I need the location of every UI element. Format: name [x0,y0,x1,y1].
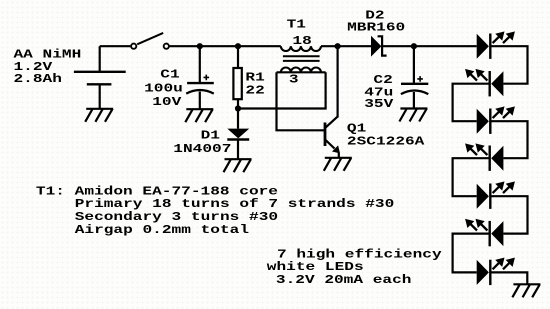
switch S1 [131,33,169,49]
LED1 (white LED, points right) [477,33,514,59]
wire primary to D2 [321,45,371,47]
svg-text:1N4007: 1N4007 [173,143,231,157]
ground (D1) [224,159,252,172]
node: C2 / LED chain junction [411,43,417,49]
svg-text:2.8Ah: 2.8Ah [14,73,62,87]
wire junction to C2 [413,46,415,84]
T1 labels [287,18,312,86]
note LED specification [267,248,442,287]
svg-text:7 high efficiency: 7 high efficiency [277,248,442,262]
LED7 (white LED, points right) [477,259,514,285]
R1 label [245,71,264,98]
svg-text:35V: 35V [364,98,394,112]
wire secondary left end to Q1 base [277,72,325,130]
capacitor C1 (polarized) [186,75,214,94]
wire D1 to ground [237,140,239,160]
node: Q1 collector / D2 anode junction [335,43,341,49]
C1 label [144,68,183,109]
capacitor C2 (polarized) [401,76,428,94]
note T1 winding specification [36,185,394,237]
node: R1/D1/secondary junction [235,105,241,111]
Q1 label [347,122,425,149]
resistor R1 22 [233,68,241,99]
wire junction to secondary right end [238,72,326,108]
wire junction to R1 [237,46,239,68]
svg-text:C1: C1 [160,68,179,82]
LED5 (white LED, points right) [477,183,514,209]
ground (C2) [399,109,427,122]
ground (battery) [85,109,113,122]
wire D1 anode [237,109,239,129]
LED6 (white LED, points left) [467,220,504,246]
svg-text:2SC1226A: 2SC1226A [347,135,425,149]
svg-text:22: 22 [245,84,264,98]
wire junction to C1 [199,46,201,83]
wire LED3 cathode to right rail [490,121,527,158]
svg-text:T1: T1 [287,18,306,32]
wire C2 to ground [413,92,415,109]
wire LED7 cathode to ground [490,272,527,284]
transformer T1 primary winding (18 turns) [281,46,321,51]
C2 label [364,74,394,112]
svg-text:Primary 18 turns of 7 strands: Primary 18 turns of 7 strands #30 [75,198,395,212]
wire C2 junction to LED1 [414,45,477,47]
wire switch to T1 primary [170,45,281,47]
svg-text:MBR160: MBR160 [347,21,405,35]
svg-text:18: 18 [292,35,311,49]
svg-text:3.2V 20mA each: 3.2V 20mA each [276,274,412,288]
svg-text:R1: R1 [245,71,264,85]
T1 secondary winding (3 turns) [277,67,326,72]
svg-text:3: 3 [289,73,299,87]
svg-text:T1: Amidon EA-77-188 core: T1: Amidon EA-77-188 core [36,185,278,199]
LED4 (white LED, points left) [467,145,504,171]
svg-text:white LEDs: white LEDs [267,261,364,275]
wire D2 to C2 junction [382,45,414,47]
wire battery to switch [100,45,131,47]
diode D2 MBR160 (Schottky) [371,36,387,57]
wire LED1 cathode to right rail [490,46,527,83]
wire LED2 cathode to left rail [453,84,490,122]
D2 label [347,9,405,35]
LED2 (white LED, points left) [467,70,504,96]
battery B1 AA NiMH [74,46,126,109]
T1 core [283,55,320,57]
transistor Q1 2SC1226A (NPN) [325,46,340,158]
node: R1 top junction [235,43,241,49]
ground (LED chain) [512,284,540,297]
svg-text:Q1: Q1 [347,122,366,136]
wire C1 to ground [199,92,201,110]
svg-text:Secondary 3 turns #30: Secondary 3 turns #30 [75,211,278,225]
svg-text:100u: 100u [144,82,183,96]
D1 label [173,129,231,156]
svg-text:10V: 10V [152,96,182,110]
wire LED6 cathode to left rail [453,234,490,273]
battery label AA NiMH 1.2V 2.8Ah [14,48,82,86]
svg-text:Airgap 0.2mm total: Airgap 0.2mm total [75,224,249,238]
wire LED5 cathode to right rail [490,196,527,233]
ground (Q1 emitter) [324,158,352,171]
ground (C1) [185,109,213,122]
node: C1 top junction [197,43,203,49]
wire R1 to node [237,99,239,108]
wire LED4 cathode to left rail [453,158,490,196]
svg-text:D1: D1 [201,129,220,143]
LED3 (white LED, points right) [477,108,514,134]
diode D1 1N4007 [227,129,249,140]
